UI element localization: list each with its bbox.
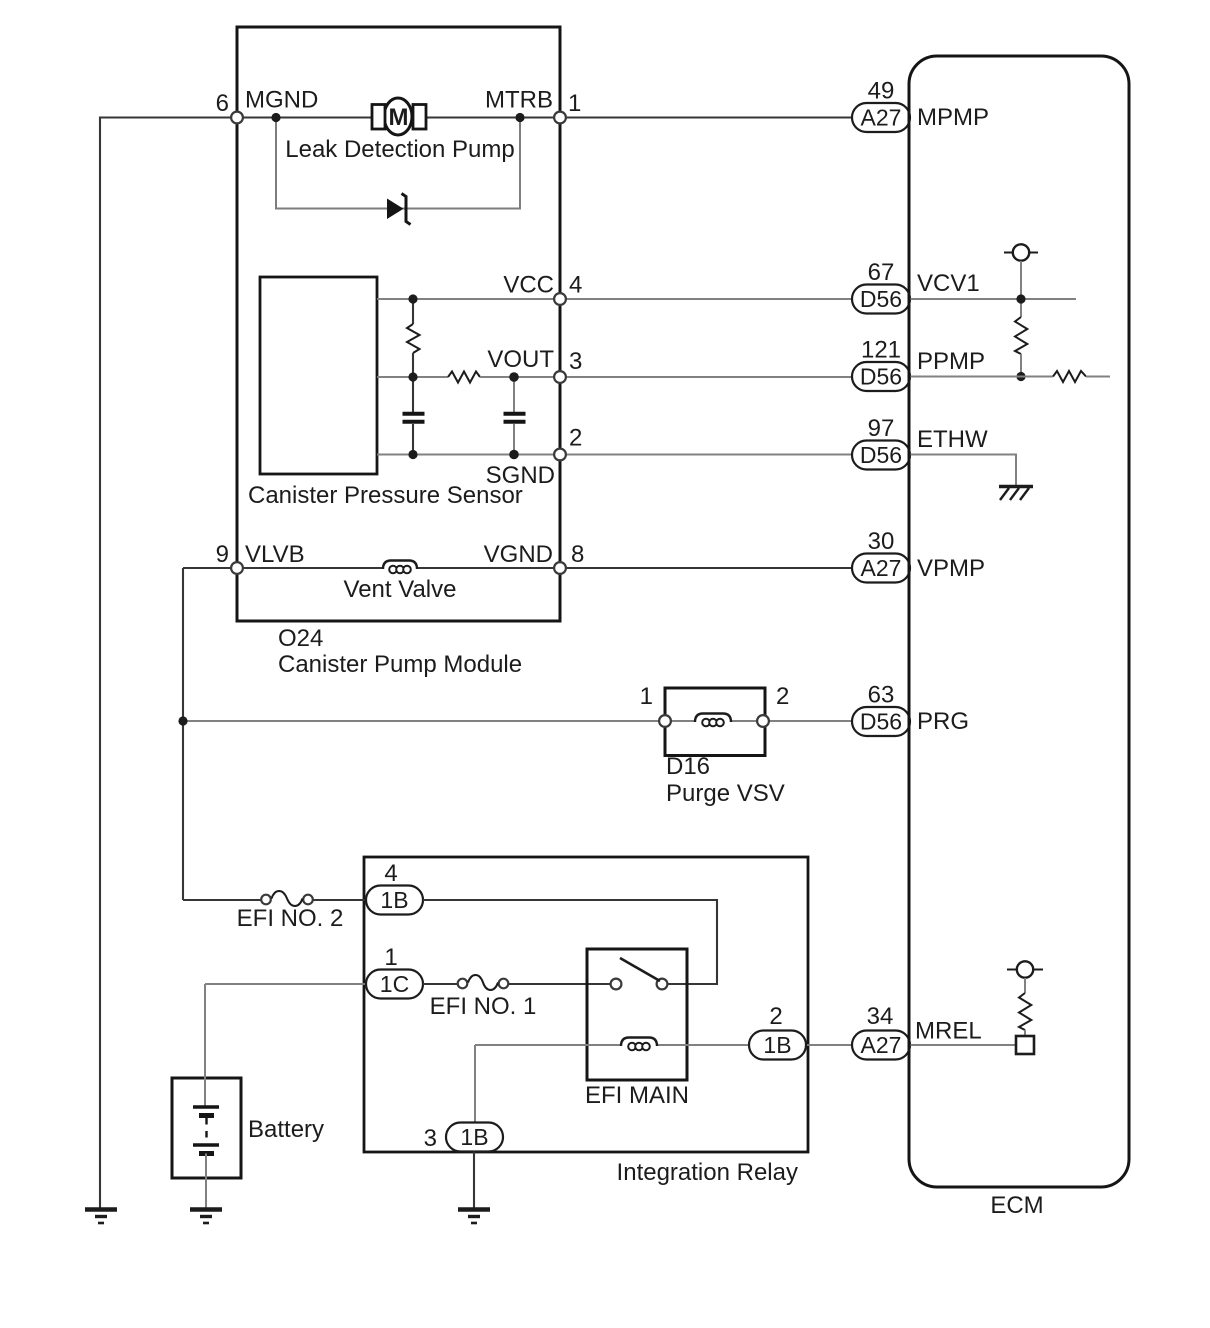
svg-text:3: 3 [569,348,582,375]
ECM box [909,56,1129,1187]
wire VOUT row left [377,376,448,378]
svg-text:MPMP: MPMP [917,104,989,131]
wire MGND/MPMP row from left riser to ECM [100,116,909,118]
svg-text:VCV1: VCV1 [917,270,980,297]
svg-text:Battery: Battery [248,1116,324,1143]
svg-text:34: 34 [867,1003,894,1030]
ground below battery [190,1210,222,1224]
relay coil EFI MAIN [621,1038,657,1051]
ground below 1B pin3 [458,1210,490,1224]
pin 2 VSV open circle [757,715,769,727]
canister pump module box O24 [237,27,560,621]
connector D56 pin 121 [852,337,910,392]
wire relay coil row [475,1044,909,1046]
wire PRG row [183,720,659,722]
wire coil to 1B pin3 [474,1045,476,1123]
junction dot PRG branch [178,716,187,725]
fuse EFI NO.2 [261,891,313,906]
svg-text:EFI NO. 1: EFI NO. 1 [430,993,537,1020]
svg-text:2: 2 [569,425,582,452]
svg-text:6: 6 [216,90,229,117]
wire battery to ground [205,1154,207,1209]
canister pressure sensor box [260,277,377,474]
wire VCV1 internal stub [1020,261,1022,317]
wire battery feed row [205,983,366,985]
svg-text:MTRB: MTRB [485,87,553,114]
junction dot VCV1 stub [1016,294,1025,303]
wire left ground riser [99,117,101,1209]
wire ETHW to ground [909,455,1016,486]
pin 4 VCC open circle [554,293,566,305]
EFI MAIN relay box [587,949,687,1080]
resistor PPMP series internal [1053,371,1086,382]
purge VSV coil [671,714,909,727]
svg-text:9: 9 [216,541,229,568]
svg-text:EFI MAIN: EFI MAIN [585,1082,689,1109]
svg-text:D56: D56 [860,709,902,735]
wire MREL internal stub [909,1044,1016,1046]
wire SGND row [377,454,909,456]
battery feed symbol above VCV1 [1004,244,1038,260]
svg-text:67: 67 [868,259,895,286]
wire fuse to 1B pin4 [313,899,366,901]
pin 3 VOUT open circle [554,371,566,383]
connector D56 pin 67 [852,259,910,314]
svg-text:3: 3 [424,1125,437,1152]
capacitor C1 on VOUT [403,377,425,455]
relay switch contacts [611,958,668,989]
svg-text:121: 121 [861,337,901,364]
svg-text:ETHW: ETHW [917,426,988,453]
connector 1B pin 4 [366,860,423,915]
connector A27 pin 30 [852,528,910,583]
svg-text:1B: 1B [380,887,408,913]
svg-text:D56: D56 [860,442,902,468]
wire VLVB riser to relay [182,568,184,900]
svg-text:MREL: MREL [915,1018,982,1045]
wire VCV1 extension [909,298,1076,300]
resistor sensor pull-up vertical [412,299,414,324]
vent valve coil [383,561,417,574]
wire battery feed riser [204,984,206,1107]
svg-text:VLVB: VLVB [245,541,305,568]
fuse EFI NO.1 [458,975,509,990]
svg-text:D16: D16 [666,753,710,780]
motor symbol (Leak Detection Pump) [372,98,426,135]
wire VLVB/VGND row [183,567,909,569]
junction dot MTRB branch [515,113,524,122]
resistor sensor VOUT series [448,372,480,383]
svg-text:EFI NO. 2: EFI NO. 2 [237,905,344,932]
battery box [172,1078,241,1178]
svg-text:A27: A27 [861,1032,902,1058]
svg-text:Integration Relay: Integration Relay [617,1159,798,1186]
svg-text:A27: A27 [861,555,902,581]
pin 2 SGND open circle [554,449,566,461]
svg-text:8: 8 [571,541,584,568]
ground at far left riser [85,1210,117,1224]
svg-text:1: 1 [640,683,653,710]
svg-text:1: 1 [568,90,581,117]
wire fuse to EFI MAIN switch [509,983,611,985]
battery cells [193,1107,219,1154]
svg-text:49: 49 [868,78,895,105]
connector 1B pin 3 [424,1123,503,1153]
svg-text:Vent Valve: Vent Valve [344,576,457,603]
svg-text:MGND: MGND [245,87,318,114]
wire VOUT row right [480,376,909,378]
wire EFI NO.2 feed row [183,899,261,901]
wire 1C to fuse EFI NO.1 [423,983,458,985]
pin 6 MGND open circle [231,112,243,124]
junction dot VOUT/C2 [509,372,519,382]
svg-text:4: 4 [569,272,582,299]
MREL driver square [1016,1036,1034,1054]
connector A27 pin 34 [852,1003,910,1060]
svg-text:VPMP: VPMP [917,555,985,582]
connector 1C pin 1 [366,944,423,999]
pin 8 VGND open circle [554,562,566,574]
wire to PPMP row [1020,354,1022,377]
svg-text:1C: 1C [380,971,409,997]
junction dot PPMP stub [1016,372,1025,381]
svg-text:D56: D56 [860,286,902,312]
junction dot VOUT/resistor [408,372,417,381]
svg-text:1B: 1B [763,1032,791,1058]
capacitor C2 on VOUT after resistor [504,377,526,455]
svg-text:PPMP: PPMP [917,348,985,375]
pin 1 VSV open circle [659,715,671,727]
svg-text:97: 97 [868,415,895,442]
svg-text:2: 2 [769,1003,782,1030]
wire VCC row [377,298,909,300]
svg-text:Leak Detection Pump: Leak Detection Pump [285,136,514,163]
connector D56 pin 97 [852,415,910,470]
wire 1B pin3 to ground [473,1152,475,1209]
svg-text:VOUT: VOUT [487,346,554,373]
svg-text:SGND: SGND [486,462,555,489]
svg-text:4: 4 [384,860,397,887]
diode D (zener) in pump loop [387,194,411,225]
svg-text:2: 2 [776,683,789,710]
junction dot VCC/resistor [408,294,417,303]
svg-text:ECM: ECM [990,1192,1043,1219]
wire motor bypass loop with diode [276,118,520,209]
svg-text:A27: A27 [861,105,902,131]
resistor MREL pull-up [1007,961,1043,1036]
svg-text:M: M [389,104,409,131]
svg-text:30: 30 [868,528,895,555]
connector D56 pin 63 [852,682,910,737]
wire PPMP extension right [1086,376,1110,378]
svg-text:63: 63 [868,682,895,709]
wire PPMP extension left [909,376,1053,378]
svg-text:1: 1 [384,944,397,971]
junction dot MGND branch [271,113,280,122]
svg-text:O24: O24 [278,625,323,652]
svg-text:Canister Pressure Sensor: Canister Pressure Sensor [248,482,523,509]
chassis ground under ETHW [999,487,1033,501]
svg-text:VGND: VGND [484,541,553,568]
svg-text:1B: 1B [460,1124,488,1150]
svg-text:Canister Pump Module: Canister Pump Module [278,651,522,678]
resistor ECM pull-up vertical [1015,317,1027,354]
connector 1B pin 2 [749,1003,806,1060]
junction dot SGND/C1 [408,450,417,459]
wire 1B pin4 to switch [423,900,717,984]
purge VSV box D16 [665,688,765,756]
svg-text:VCC: VCC [503,272,554,299]
junction dot SGND/C2 [509,450,519,460]
connector A27 pin 49 [852,78,910,133]
pin 1 MTRB open circle [554,112,566,124]
svg-text:D56: D56 [860,364,902,390]
svg-text:Purge VSV: Purge VSV [666,780,785,807]
integration relay box [364,857,808,1152]
pin 9 VLVB open circle [231,562,243,574]
svg-text:PRG: PRG [917,708,969,735]
